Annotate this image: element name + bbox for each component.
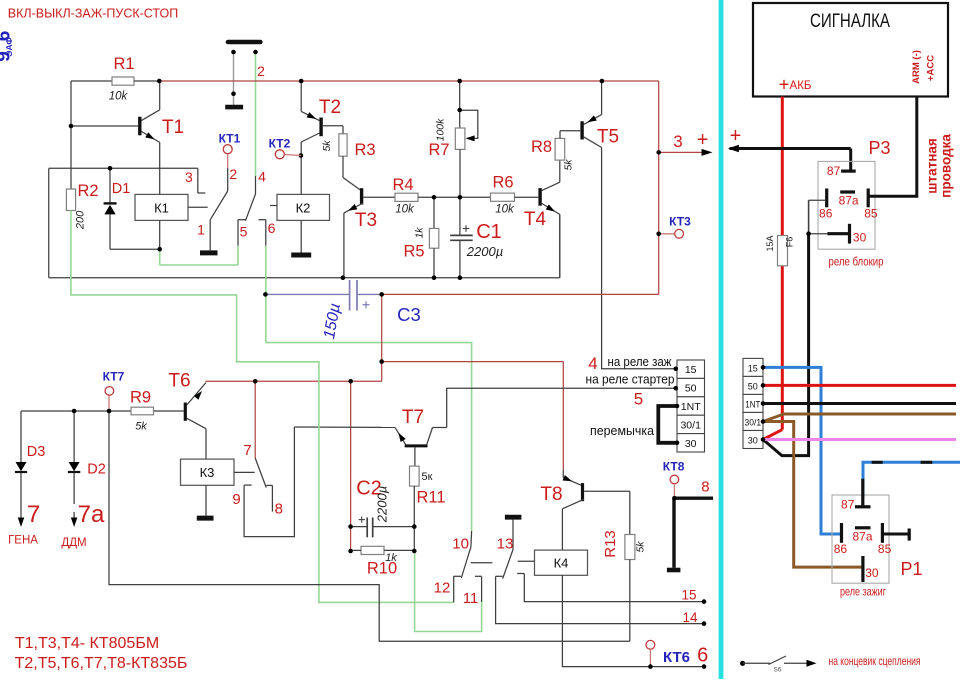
svg-text:R7: R7 [428, 141, 449, 159]
svg-text:15: 15 [685, 364, 697, 376]
svg-text:87а: 87а [839, 194, 859, 208]
svg-text:3: 3 [185, 169, 193, 185]
svg-text:R8: R8 [531, 138, 552, 156]
svg-text:1NT: 1NT [681, 401, 701, 413]
svg-text:T5: T5 [597, 127, 619, 148]
svg-text:30/1: 30/1 [680, 419, 701, 431]
svg-text:2: 2 [229, 166, 237, 182]
svg-text:10k: 10k [495, 204, 515, 216]
svg-text:6: 6 [268, 220, 276, 236]
svg-text:проводка: проводка [939, 134, 954, 198]
svg-text:14: 14 [682, 610, 698, 625]
svg-text:К4: К4 [554, 556, 569, 571]
svg-text:R9: R9 [130, 389, 151, 407]
svg-text:8: 8 [701, 479, 709, 496]
svg-text:30: 30 [853, 231, 867, 245]
svg-text:R6: R6 [492, 174, 513, 192]
svg-text:12: 12 [434, 580, 451, 597]
svg-text:КТ2: КТ2 [269, 137, 291, 151]
svg-text:13: 13 [497, 536, 514, 553]
svg-text:85: 85 [864, 207, 878, 221]
svg-text:11: 11 [463, 590, 479, 607]
svg-text:1k: 1k [414, 227, 426, 239]
svg-text:10k: 10k [395, 204, 415, 216]
svg-text:1NT: 1NT [745, 399, 760, 409]
svg-text:C3: C3 [397, 304, 421, 325]
svg-text:2200µ: 2200µ [375, 486, 390, 523]
svg-text:КТ3: КТ3 [669, 215, 691, 229]
svg-text:на реле заж: на реле заж [608, 354, 672, 369]
svg-text:T7: T7 [402, 407, 424, 428]
svg-text:87: 87 [827, 164, 841, 178]
svg-text:9: 9 [232, 491, 240, 508]
svg-text:D3: D3 [27, 444, 46, 460]
svg-text:КТ6: КТ6 [663, 649, 690, 666]
svg-text:7: 7 [27, 501, 40, 528]
svg-text:на реле стартер: на реле стартер [586, 372, 675, 387]
svg-text:S6: S6 [774, 667, 782, 674]
svg-text:4: 4 [258, 169, 266, 185]
svg-text:2200µ: 2200µ [466, 244, 503, 259]
svg-text:+: + [779, 75, 790, 95]
svg-text:К2: К2 [296, 201, 311, 216]
svg-text:4: 4 [588, 354, 597, 373]
svg-text:реле зажиг: реле зажиг [840, 585, 886, 599]
svg-text:30: 30 [685, 438, 697, 450]
svg-text:Р1: Р1 [900, 559, 922, 579]
svg-text:+: + [697, 129, 709, 151]
svg-text:R4: R4 [392, 176, 413, 194]
svg-text:5к: 5к [422, 471, 433, 483]
svg-text:86: 86 [834, 542, 848, 556]
svg-text:1: 1 [197, 222, 205, 238]
svg-text:T1: T1 [162, 117, 184, 138]
svg-text:R10: R10 [367, 560, 397, 578]
svg-text:2: 2 [257, 63, 265, 79]
svg-text:86: 86 [819, 207, 833, 221]
svg-text:200: 200 [75, 210, 87, 230]
svg-text:10: 10 [452, 536, 469, 553]
svg-text:реле блокир: реле блокир [829, 255, 884, 269]
svg-text:D1: D1 [112, 181, 131, 197]
svg-text:30: 30 [865, 566, 879, 580]
svg-text:T2: T2 [319, 97, 341, 118]
svg-text:ВКЛ-ВЫКЛ-ЗАЖ-ПУСК-СТОП: ВКЛ-ВЫКЛ-ЗАЖ-ПУСК-СТОП [8, 7, 178, 21]
svg-text:АКБ: АКБ [790, 80, 812, 92]
svg-text:50: 50 [685, 383, 697, 395]
svg-text:R5: R5 [403, 243, 424, 261]
svg-text:R1: R1 [113, 55, 134, 73]
svg-text:100k: 100k [435, 118, 447, 142]
svg-text:Р3: Р3 [868, 138, 890, 158]
svg-text:87: 87 [841, 498, 855, 512]
svg-text:5k: 5k [321, 140, 333, 152]
svg-text:6: 6 [697, 645, 708, 667]
svg-text:К1: К1 [154, 201, 169, 216]
svg-text:R11: R11 [416, 489, 445, 507]
svg-text:перемычка: перемычка [590, 424, 654, 438]
svg-text:15: 15 [748, 363, 758, 373]
svg-text:T3: T3 [355, 210, 377, 231]
svg-text:T4: T4 [524, 209, 547, 230]
svg-text:F6: F6 [785, 237, 795, 248]
svg-text:R2: R2 [77, 182, 98, 200]
svg-text:штатная: штатная [925, 138, 940, 194]
svg-text:ЭАФ: ЭАФ [4, 37, 14, 56]
svg-text:7а: 7а [78, 501, 105, 528]
svg-text:ДДМ: ДДМ [61, 537, 86, 549]
svg-text:5k: 5k [635, 541, 647, 553]
svg-text:Т2,Т5,Т6,Т7,Т8-КТ835Б: Т2,Т5,Т6,Т7,Т8-КТ835Б [15, 655, 188, 672]
svg-text:на концевик сцепления: на концевик сцепления [829, 654, 921, 668]
svg-text:30: 30 [748, 435, 758, 445]
svg-text:+ACC: +ACC [926, 55, 937, 81]
svg-text:R3: R3 [354, 141, 375, 159]
svg-text:+: + [730, 125, 742, 147]
svg-text:10k: 10k [109, 91, 129, 103]
svg-text:ARM (-): ARM (-) [911, 50, 922, 84]
svg-text:7: 7 [243, 442, 251, 459]
svg-text:5: 5 [634, 390, 643, 409]
svg-text:5k: 5k [135, 421, 147, 433]
svg-text:КТ7: КТ7 [103, 370, 125, 384]
svg-text:30/1: 30/1 [745, 417, 762, 427]
svg-text:D2: D2 [87, 462, 106, 478]
svg-text:Т1,Т3,Т4- КТ805БМ: Т1,Т3,Т4- КТ805БМ [15, 635, 159, 652]
svg-text:T6: T6 [168, 371, 190, 392]
svg-text:87а: 87а [852, 530, 872, 544]
svg-text:К3: К3 [200, 465, 215, 480]
svg-text:5k: 5k [563, 159, 575, 171]
svg-text:15A: 15A [765, 235, 775, 251]
svg-text:8: 8 [275, 501, 283, 518]
svg-text:СИГНАЛКА: СИГНАЛКА [810, 11, 890, 32]
svg-text:ГЕНА: ГЕНА [8, 535, 38, 547]
svg-text:КТ1: КТ1 [219, 132, 241, 146]
svg-text:85: 85 [878, 542, 892, 556]
svg-text:T8: T8 [540, 484, 562, 505]
svg-text:15: 15 [681, 588, 696, 603]
svg-text:R13: R13 [602, 530, 619, 558]
svg-text:C1: C1 [476, 221, 502, 243]
svg-text:3: 3 [673, 132, 682, 151]
svg-text:50: 50 [748, 381, 758, 391]
svg-text:5: 5 [240, 224, 248, 240]
svg-text:КТ8: КТ8 [663, 460, 685, 474]
